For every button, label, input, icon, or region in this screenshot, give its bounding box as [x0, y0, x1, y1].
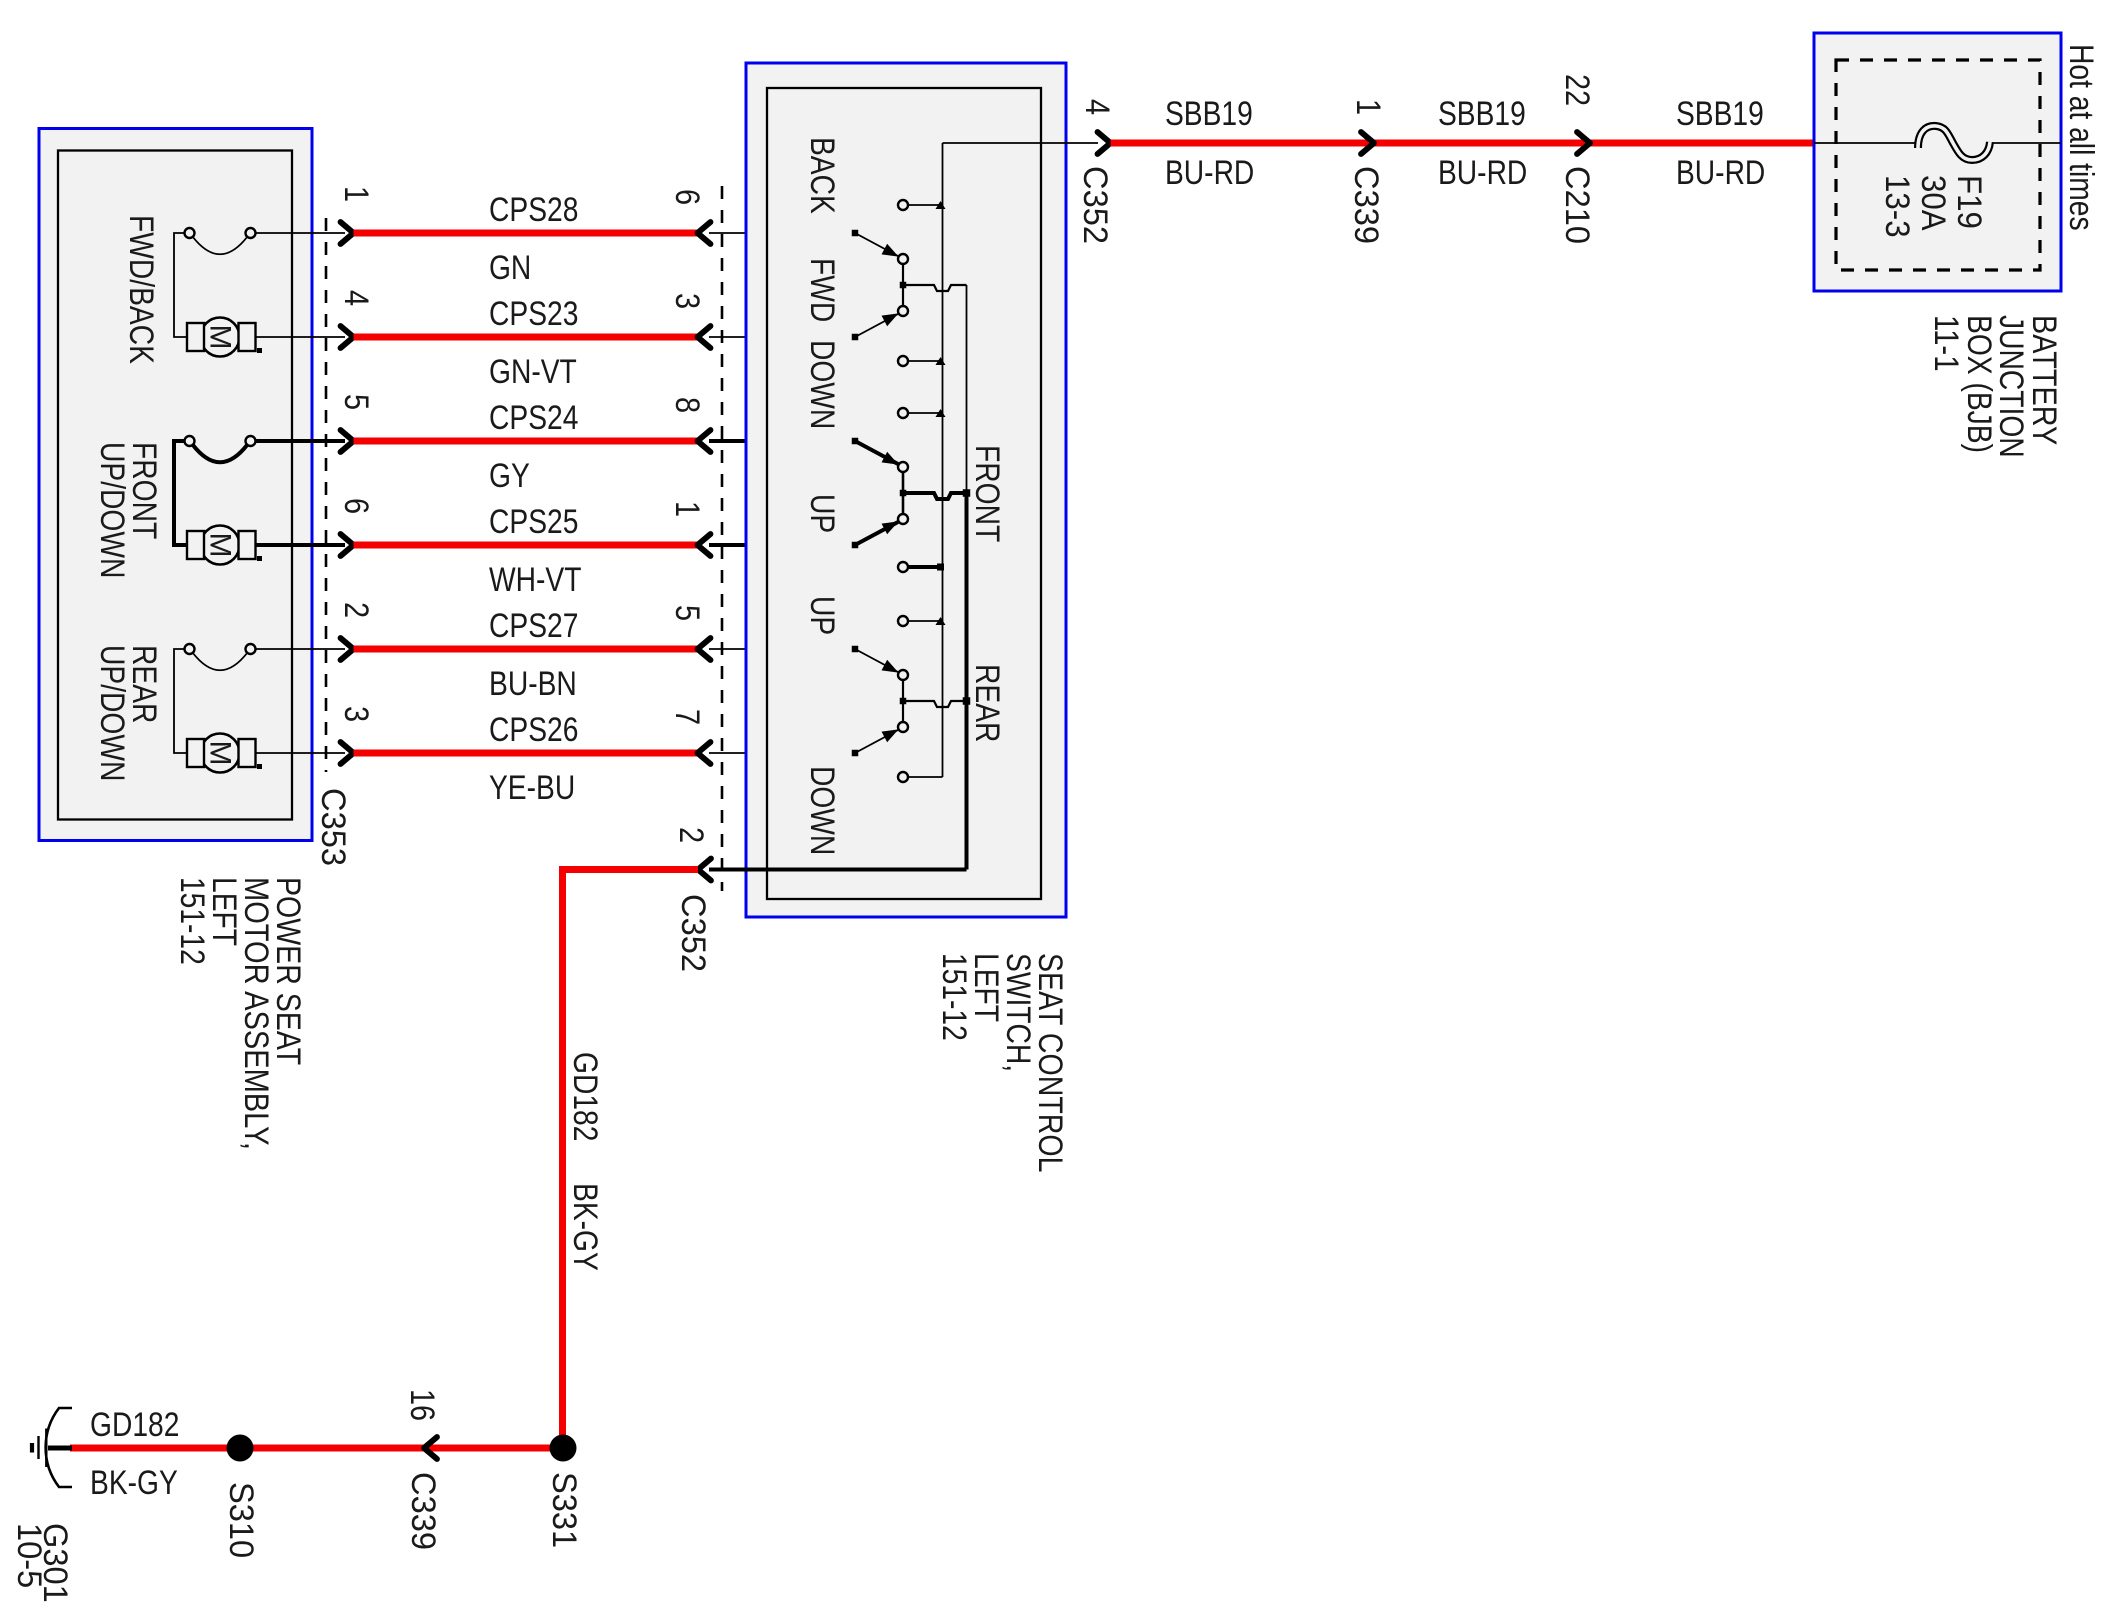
svg-text:151-12: 151-12: [173, 877, 211, 965]
label BU-BN: [489, 665, 577, 703]
wire: pin 7 lead into switch: [709, 752, 855, 754]
switch blade pair FWD/BACK: [852, 230, 908, 341]
wire CPS25 WH-VT (red): [354, 542, 698, 549]
label GN-VT: [489, 353, 577, 391]
label C352 (bottom): [674, 894, 712, 972]
connector C352 pin 3 arrow: [698, 326, 711, 348]
label BU-RD: [1438, 154, 1527, 192]
label REAR (bus): [968, 664, 1006, 742]
pin number 2 (C352): [672, 827, 710, 843]
switch side contact (bottom) FWD/BACK: [898, 356, 946, 366]
wire: jumper to connector pin (row 1): [256, 232, 345, 234]
pin number 5 (C352): [668, 605, 706, 621]
switch blade pair REAR UP/DOWN: [852, 646, 908, 757]
svg-text:BK-GY: BK-GY: [90, 1464, 178, 1502]
svg-text:151-12: 151-12: [935, 953, 973, 1041]
wire: jumper left leg to motor 2: [174, 441, 187, 545]
wire CPS28 GN (red): [354, 230, 698, 237]
label FRONT (bus): [968, 445, 1006, 542]
wire: BJB internal (left of fuse): [1814, 142, 1918, 144]
svg-text:5: 5: [337, 394, 375, 410]
pin number 1 (C352): [668, 501, 706, 517]
svg-text:S310: S310: [222, 1482, 260, 1558]
connector C339 pin 1 arrow: [1361, 132, 1374, 154]
label Hot at all times: [2062, 44, 2100, 231]
switch blade pair FRONT UP/DOWN: [852, 438, 908, 549]
switch jumper REAR UP/DOWN: [185, 644, 256, 670]
wire: switch feed to C352 pin 4: [943, 142, 1099, 144]
svg-text:7: 7: [668, 709, 706, 725]
label BACK (switch position): [803, 137, 841, 214]
motor M FRONT UP/DOWN: [187, 526, 262, 565]
label WH-VT: [489, 561, 582, 599]
wire: jumper to connector pin (row 5): [256, 648, 345, 650]
pin number 4 (C353): [337, 290, 375, 306]
splice S310: [227, 1435, 254, 1462]
pin number 4 (C352): [1078, 99, 1116, 115]
svg-text:GN: GN: [489, 249, 531, 287]
wire CPS26 YE-BU (red): [354, 750, 698, 757]
label GY: [489, 457, 530, 495]
connector C353 pin 6 arrow: [341, 534, 354, 556]
pin number 1 (C339): [1349, 99, 1387, 115]
pin number 5 (C353): [337, 394, 375, 410]
wire: pin 6 lead into switch: [709, 232, 855, 234]
wire: BJB internal (right of fuse): [1990, 142, 2061, 144]
connector C352 pin 2 arrow: [698, 859, 711, 881]
label SBB19: [1165, 95, 1253, 133]
wire: pin 2 to vertical (red): [559, 866, 698, 873]
svg-text:UP: UP: [803, 596, 841, 635]
svg-text:BACK: BACK: [803, 137, 841, 214]
power seat motor assembly box (outer blue): [39, 129, 312, 841]
fuse F19 30A element: [1918, 126, 1990, 160]
svg-text:SBB19: SBB19: [1438, 95, 1526, 133]
svg-text:DOWN: DOWN: [803, 340, 841, 429]
svg-text:FWD: FWD: [803, 258, 841, 322]
pin number 6 (C353): [337, 498, 375, 514]
svg-text:YE-BU: YE-BU: [489, 769, 575, 807]
svg-text:S331: S331: [545, 1472, 583, 1548]
svg-text:3: 3: [668, 293, 706, 309]
ground G301 symbol: [32, 1408, 72, 1487]
svg-text:C352: C352: [674, 894, 712, 972]
label C210: [1558, 166, 1596, 244]
label FRONT UP/DOWN: [93, 442, 163, 578]
wire: motor to connector pin (row 2): [256, 336, 346, 338]
label DOWN (switch position): [803, 340, 841, 429]
seat control switch box (outer blue): [746, 63, 1066, 917]
connector C352 pin 8 arrow: [698, 430, 711, 452]
label C352 (top): [1076, 166, 1114, 244]
svg-text:22: 22: [1558, 74, 1596, 106]
label UP (switch position): [803, 596, 841, 635]
wire GD182 BK-GY horizontal (red): [70, 1445, 563, 1452]
switch jumper FWD/BACK: [185, 228, 256, 254]
svg-text:GD182: GD182: [566, 1052, 604, 1141]
svg-text:M: M: [204, 533, 237, 558]
label SBB19: [1438, 95, 1526, 133]
svg-text:WH-VT: WH-VT: [489, 561, 582, 599]
svg-text:M: M: [204, 325, 237, 350]
connector C352 pin 1 arrow: [698, 534, 711, 556]
wire: motor to connector pin (row 4): [256, 543, 346, 547]
label FWD (switch position): [803, 258, 841, 322]
connector C353 pin 5 arrow: [341, 430, 354, 452]
wire GD182 BK-GY vertical (red): [559, 866, 566, 1448]
svg-text:DOWN: DOWN: [803, 766, 841, 855]
label GD182 (ground): [90, 1406, 179, 1444]
svg-text:CPS23: CPS23: [489, 295, 578, 333]
label S310: [222, 1482, 260, 1558]
label BATTERY JUNCTION BOX (BJB) 11-1: [1927, 315, 2063, 458]
svg-text:BU-RD: BU-RD: [1676, 154, 1765, 192]
connector C353 pin 1 arrow: [341, 222, 354, 244]
svg-text:16: 16: [403, 1389, 441, 1421]
svg-text:UP/DOWN: UP/DOWN: [93, 442, 131, 578]
wire: pin 5 lead into switch: [709, 648, 855, 650]
label SBB19: [1676, 95, 1764, 133]
svg-text:CPS24: CPS24: [489, 399, 578, 437]
wire: switch output bus to pin 2: [966, 285, 968, 870]
pin number 3 (C352): [668, 293, 706, 309]
connector C339 pin 16 arrow: [424, 1437, 437, 1459]
connector C353 pin 2 arrow: [341, 638, 354, 660]
label S331: [545, 1472, 583, 1548]
pin number 7 (C352): [668, 709, 706, 725]
connector C210 pin 22 arrow: [1577, 132, 1590, 154]
svg-text:REAR: REAR: [968, 664, 1006, 742]
label SEAT CONTROL SWITCH, LEFT 151-12: [935, 953, 1069, 1173]
wire CPS23 GN-VT (red): [354, 334, 698, 341]
connector C352 pin 4 arrow: [1098, 132, 1111, 154]
connector C353 pin 4 arrow: [341, 326, 354, 348]
label REAR UP/DOWN: [93, 645, 163, 781]
pin number 1 (C353): [337, 186, 375, 202]
connector C352 dashed line: [721, 186, 724, 891]
svg-text:3: 3: [337, 706, 375, 722]
svg-text:2: 2: [672, 827, 710, 843]
wire SBB19 BU-RD (red, pin4 to BJB): [1111, 140, 1815, 147]
svg-text:F19: F19: [1950, 175, 1988, 229]
svg-text:11-1: 11-1: [1927, 315, 1965, 372]
label CPS24: [489, 399, 578, 437]
battery junction box (outer blue): [1814, 33, 2061, 291]
label F19 30A 13-3: [1878, 175, 1988, 238]
svg-text:8: 8: [668, 397, 706, 413]
svg-text:4: 4: [1078, 99, 1116, 115]
switch side contact (top) FWD/BACK: [898, 200, 946, 210]
svg-text:SBB19: SBB19: [1676, 95, 1764, 133]
label DOWN (switch position): [803, 766, 841, 855]
pin number 22 (C210): [1558, 74, 1596, 106]
wire: jumper left leg to motor 1: [174, 233, 187, 337]
label UP (switch position): [803, 494, 841, 533]
pin number 16 (C339): [403, 1389, 441, 1421]
svg-text:1: 1: [337, 186, 375, 202]
connector C353 pin 3 arrow: [341, 742, 354, 764]
wire CPS27 BU-BN (red): [354, 646, 698, 653]
svg-text:BU-RD: BU-RD: [1165, 154, 1254, 192]
svg-text:BU-BN: BU-BN: [489, 665, 577, 703]
svg-text:BK-GY: BK-GY: [566, 1183, 604, 1271]
label GN: [489, 249, 531, 287]
label POWER SEAT MOTOR ASSEMBLY, LEFT 151-12: [173, 877, 307, 1150]
svg-text:CPS26: CPS26: [489, 711, 578, 749]
svg-text:CPS27: CPS27: [489, 607, 578, 645]
svg-text:SBB19: SBB19: [1165, 95, 1253, 133]
pin number 8 (C352): [668, 397, 706, 413]
svg-text:C339: C339: [404, 1472, 442, 1550]
svg-text:CPS25: CPS25: [489, 503, 578, 541]
svg-text:1: 1: [1349, 99, 1387, 115]
label C339 (top): [1347, 166, 1385, 244]
pin number 2 (C353): [337, 602, 375, 618]
label YE-BU: [489, 769, 575, 807]
wire: pin 3 lead into switch: [709, 336, 855, 338]
label G301 10-5: [10, 1523, 74, 1603]
seat control switch inner outline: [767, 88, 1041, 899]
battery junction box dashed outline: [1836, 60, 2040, 270]
svg-text:6: 6: [337, 498, 375, 514]
wire: jumper to connector pin (row 3): [256, 439, 345, 443]
wire: pin 1 lead into switch: [709, 543, 855, 547]
splice S331: [550, 1435, 577, 1462]
switch side contact (top) FRONT UP/DOWN: [898, 408, 946, 418]
wire: pin 8 lead into switch: [709, 439, 855, 443]
label C339 (bottom): [404, 1472, 442, 1550]
connector C352 pin 5 arrow: [698, 638, 711, 660]
svg-text:GY: GY: [489, 457, 530, 495]
label CPS27: [489, 607, 578, 645]
motor M REAR UP/DOWN: [187, 734, 262, 773]
switch side contact (bottom) REAR UP/DOWN: [898, 772, 943, 782]
svg-text:UP/DOWN: UP/DOWN: [93, 645, 131, 781]
wire: motor to connector pin (row 6): [256, 752, 346, 754]
svg-text:M: M: [204, 741, 237, 766]
wire: pole tap FRONT UP/DOWN (hop over bus): [900, 489, 971, 499]
power seat motor assembly inner outline: [58, 151, 292, 820]
wire CPS24 GY (red): [354, 438, 698, 445]
svg-text:CPS28: CPS28: [489, 191, 578, 229]
label C353: [314, 788, 352, 866]
wire: pole tap FWD/BACK (hop over bus): [900, 282, 967, 291]
wire: switch output to C352 pin 2 (bold): [709, 868, 967, 872]
svg-text:GN-VT: GN-VT: [489, 353, 577, 391]
label CPS26: [489, 711, 578, 749]
label CPS28: [489, 191, 578, 229]
switch side contact (bottom) FRONT UP/DOWN: [898, 562, 944, 572]
connector C353 dashed line: [325, 218, 328, 772]
label BK-GY (ground): [90, 1464, 178, 1502]
svg-text:BU-RD: BU-RD: [1438, 154, 1527, 192]
svg-text:GD182: GD182: [90, 1406, 179, 1444]
svg-text:C353: C353: [314, 788, 352, 866]
svg-text:4: 4: [337, 290, 375, 306]
svg-text:C352: C352: [1076, 166, 1114, 244]
svg-text:5: 5: [668, 605, 706, 621]
svg-text:FRONT: FRONT: [968, 445, 1006, 542]
label BU-RD: [1676, 154, 1765, 192]
svg-text:10-5: 10-5: [10, 1523, 48, 1588]
svg-text:Hot at all times: Hot at all times: [2062, 44, 2100, 231]
svg-text:C210: C210: [1558, 166, 1596, 244]
connector C352 pin 7 arrow: [698, 742, 711, 764]
label BK-GY (vertical wire): [566, 1183, 604, 1271]
svg-text:30A: 30A: [1914, 175, 1952, 231]
wire: jumper left leg to motor 3: [174, 649, 187, 753]
svg-text:1: 1: [668, 501, 706, 517]
svg-text:2: 2: [337, 602, 375, 618]
svg-text:C339: C339: [1347, 166, 1385, 244]
label CPS25: [489, 503, 578, 541]
label GD182 (vertical wire): [566, 1052, 604, 1141]
svg-text:6: 6: [668, 189, 706, 205]
pin number 6 (C352): [668, 189, 706, 205]
wire: pole tap REAR UP/DOWN (hop over bus): [900, 697, 971, 707]
label FWD/BACK: [122, 215, 160, 364]
label BU-RD: [1165, 154, 1254, 192]
label CPS23: [489, 295, 578, 333]
motor M FWD/BACK: [187, 318, 262, 357]
svg-text:UP: UP: [803, 494, 841, 533]
svg-text:13-3: 13-3: [1878, 175, 1916, 238]
connector C352 pin 6 arrow: [698, 222, 711, 244]
wire: switch common bus (from pin 4): [942, 143, 944, 777]
pin number 3 (C353): [337, 706, 375, 722]
switch jumper FRONT UP/DOWN: [185, 436, 256, 462]
switch side contact (top) REAR UP/DOWN: [898, 616, 946, 626]
svg-text:FWD/BACK: FWD/BACK: [122, 215, 160, 364]
